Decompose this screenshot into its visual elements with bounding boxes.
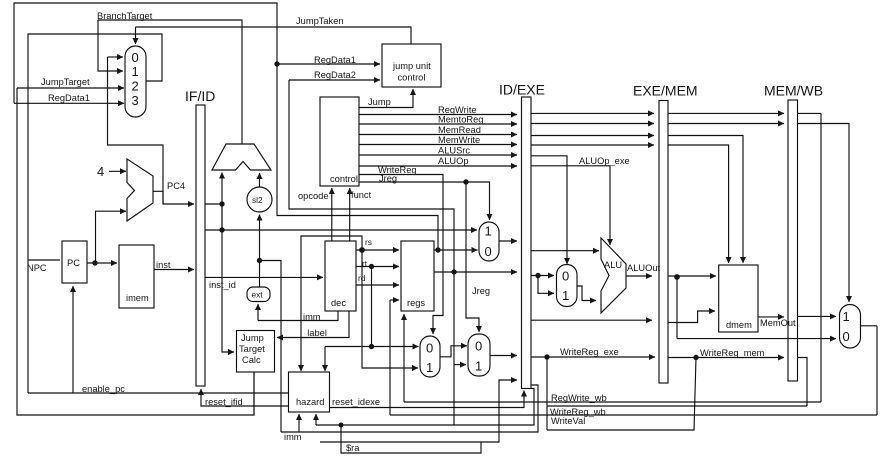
svg-text:WriteReg_mem: WriteReg_mem: [700, 348, 765, 358]
svg-text:$ra: $ra: [346, 443, 360, 453]
svg-text:0: 0: [562, 269, 569, 284]
svg-text:4: 4: [97, 164, 104, 179]
svg-text:1: 1: [843, 309, 850, 324]
svg-text:dec: dec: [331, 298, 346, 308]
svg-text:PC4: PC4: [167, 181, 185, 191]
svg-text:Jreg: Jreg: [472, 286, 490, 296]
svg-text:0: 0: [426, 341, 433, 356]
svg-text:imem: imem: [126, 293, 149, 303]
svg-text:reset_ifid: reset_ifid: [205, 397, 243, 407]
svg-text:regs: regs: [407, 298, 425, 308]
svg-text:imm: imm: [303, 312, 321, 322]
svg-text:1: 1: [562, 288, 569, 303]
svg-text:ALUOp_exe: ALUOp_exe: [579, 156, 630, 166]
svg-text:3: 3: [132, 93, 139, 108]
svg-text:control: control: [330, 174, 358, 184]
svg-text:JumpTarget: JumpTarget: [41, 77, 90, 87]
svg-text:ext: ext: [252, 290, 264, 300]
svg-text:1: 1: [485, 224, 492, 239]
svg-text:NPC: NPC: [27, 263, 47, 273]
svg-text:inst: inst: [156, 260, 171, 270]
svg-text:enable_pc: enable_pc: [82, 384, 125, 394]
svg-text:ALUOp: ALUOp: [438, 156, 469, 166]
svg-text:inst_id: inst_id: [209, 280, 236, 290]
svg-text:Jump: Jump: [241, 333, 264, 343]
svg-text:EXE/MEM: EXE/MEM: [633, 83, 698, 99]
svg-text:WriteVal: WriteVal: [551, 416, 585, 426]
svg-text:rd: rd: [358, 273, 366, 283]
svg-text:0: 0: [132, 50, 139, 65]
svg-text:RegData1: RegData1: [48, 93, 90, 103]
svg-text:ID/EXE: ID/EXE: [499, 82, 545, 98]
svg-text:0: 0: [485, 244, 492, 259]
svg-text:rs: rs: [365, 237, 372, 247]
svg-text:hazard: hazard: [296, 397, 324, 407]
svg-text:MEM/WB: MEM/WB: [764, 83, 823, 99]
svg-text:RegWrite_wb: RegWrite_wb: [551, 393, 607, 403]
svg-text:PC: PC: [67, 258, 80, 268]
svg-text:MemtoReg: MemtoReg: [438, 115, 483, 125]
svg-text:funct: funct: [351, 190, 372, 200]
svg-text:BranchTarget: BranchTarget: [97, 11, 153, 21]
svg-text:1: 1: [132, 64, 139, 79]
svg-text:Jump: Jump: [368, 97, 391, 107]
svg-text:ALUSrc: ALUSrc: [438, 146, 470, 156]
svg-text:1: 1: [475, 359, 482, 374]
svg-text:RegData1: RegData1: [314, 55, 356, 65]
svg-text:Calc: Calc: [242, 355, 261, 365]
svg-text:ALU: ALU: [604, 260, 622, 270]
svg-text:control: control: [398, 73, 426, 83]
svg-text:0: 0: [843, 329, 850, 344]
svg-text:MemOut: MemOut: [760, 318, 796, 328]
svg-text:Target: Target: [239, 344, 265, 354]
svg-text:Jreg: Jreg: [379, 174, 397, 184]
svg-text:imm: imm: [284, 432, 302, 442]
svg-text:opcode: opcode: [298, 191, 329, 201]
svg-text:MemRead: MemRead: [438, 125, 481, 135]
svg-text:0: 0: [475, 339, 482, 354]
svg-text:2: 2: [132, 79, 139, 94]
svg-text:IF/ID: IF/ID: [185, 88, 215, 104]
svg-text:RegWrite: RegWrite: [438, 105, 477, 115]
svg-text:reset_idexe: reset_idexe: [332, 397, 380, 407]
svg-text:WriteReg_exe: WriteReg_exe: [560, 347, 619, 357]
svg-text:MemWrite: MemWrite: [438, 135, 480, 145]
svg-text:jump unit: jump unit: [392, 61, 431, 71]
svg-text:JumpTaken: JumpTaken: [296, 16, 344, 26]
svg-text:1: 1: [426, 360, 433, 375]
svg-text:sl2: sl2: [252, 195, 263, 205]
svg-text:dmem: dmem: [726, 320, 752, 330]
svg-text:ALUOut: ALUOut: [627, 263, 660, 273]
svg-text:RegData2: RegData2: [314, 70, 356, 80]
svg-text:rt: rt: [362, 259, 368, 269]
svg-text:i_label: i_label: [300, 328, 327, 338]
